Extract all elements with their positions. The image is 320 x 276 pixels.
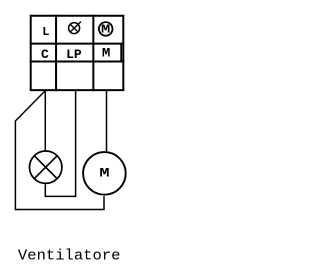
svg-text:M: M <box>102 46 111 61</box>
svg-text:C: C <box>41 47 49 62</box>
svg-text:LP: LP <box>66 47 82 62</box>
svg-text:Ventilatore: Ventilatore <box>18 248 121 265</box>
svg-text:M: M <box>101 24 110 37</box>
svg-text:L: L <box>42 25 49 39</box>
svg-text:M: M <box>99 165 109 181</box>
